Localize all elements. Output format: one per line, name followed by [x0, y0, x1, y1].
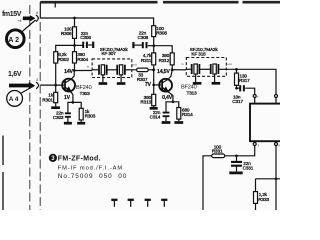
svg-text:KF 316: KF 316	[191, 51, 206, 56]
svg-text:R308: R308	[156, 31, 167, 36]
svg-text:C331: C331	[243, 166, 254, 171]
filter2 resonator 2	[200, 68, 210, 70]
wire bias row stage2	[154, 46, 173, 53]
connector pin T3	[145, 199, 151, 201]
ground C308 (inline bar)	[132, 42, 134, 48]
ground filter2 res2	[212, 82, 221, 85]
svg-text:R312: R312	[159, 58, 170, 63]
leader A4	[20, 86, 34, 94]
ground R303	[77, 122, 85, 125]
node R308 bottom	[152, 44, 155, 47]
filter1 resonator 2	[107, 69, 116, 71]
node base2 top	[152, 68, 155, 71]
node pin6 junction	[275, 177, 278, 180]
node base2	[152, 84, 155, 87]
svg-text:6: 6	[278, 143, 280, 147]
wire: supply riser and rail to R308	[40, 2, 153, 26]
capacitor C308	[135, 44, 143, 46]
svg-text:in: in	[181, 62, 184, 66]
svg-text:1V: 1V	[64, 95, 71, 101]
rail stub tick	[54, 2, 56, 8]
svg-text:A 4: A 4	[9, 96, 19, 103]
wire filter2 out to IC	[226, 69, 276, 94]
svg-text:R304: R304	[77, 57, 88, 62]
node R306 bottom	[73, 44, 76, 47]
badge A4	[7, 91, 23, 107]
resistor R314	[173, 102, 179, 121]
node emitter1	[72, 101, 75, 104]
connector pin T1	[111, 199, 117, 201]
svg-text:fm15V: fm15V	[2, 11, 22, 18]
node C317 left	[235, 87, 238, 90]
svg-text:BF240: BF240	[181, 84, 197, 90]
resistor R311	[152, 53, 156, 65]
arrow fm15V input	[23, 15, 36, 21]
leader A2	[21, 20, 35, 32]
resistor R301	[54, 92, 58, 102]
connector pin T2	[128, 199, 134, 201]
filter1 resonator 1	[92, 69, 98, 71]
resistor R306	[73, 27, 77, 39]
node emitter2	[172, 100, 175, 103]
ceramic filter KF316 dashed box	[186, 58, 226, 77]
svg-text:7: 7	[257, 95, 259, 99]
filter2 resonator 1	[186, 68, 191, 70]
resistor R308	[152, 26, 156, 37]
ground R314	[174, 121, 183, 124]
resistor R302	[54, 52, 58, 63]
node collector2	[171, 68, 174, 71]
capacitor C303	[68, 102, 73, 112]
ground C331	[229, 171, 242, 174]
svg-text:out: out	[132, 62, 136, 66]
svg-text:FM-IF mod./F.I.-AM: FM-IF mod./F.I.-AM	[58, 165, 123, 171]
pin top right	[275, 95, 278, 98]
ground filter2 res1	[193, 82, 202, 85]
node base1 junction	[54, 84, 57, 87]
svg-text:1,6V: 1,6V	[8, 71, 22, 78]
connector socket 1,6V	[36, 82, 38, 89]
svg-text:FM-ZF-Mod.: FM-ZF-Mod.	[58, 156, 101, 163]
svg-text:KF 307: KF 307	[102, 51, 117, 56]
transistor T303	[62, 79, 75, 92]
svg-text:out: out	[227, 62, 231, 66]
resistor R304	[73, 52, 77, 63]
IC box	[250, 104, 283, 142]
wire base row stage2	[154, 84, 161, 86]
node R317 top	[235, 68, 238, 71]
svg-text:3: 3	[257, 143, 259, 147]
wire collector row stage1	[74, 70, 92, 72]
resistor R313	[152, 94, 156, 105]
svg-text:R301: R301	[42, 97, 53, 102]
ground C306 (inline bar)	[92, 42, 94, 48]
svg-text:C314: C314	[150, 115, 161, 120]
svg-text:T313: T313	[187, 91, 198, 96]
svg-text:R306: R306	[61, 31, 72, 36]
svg-text:R317: R317	[239, 78, 250, 83]
pin 7	[253, 95, 256, 98]
svg-text:7V: 7V	[145, 82, 152, 88]
svg-text:C308: C308	[138, 35, 149, 40]
left sheet border	[2, 136, 4, 211]
resistor R312	[170, 53, 174, 65]
pin 3	[253, 143, 256, 146]
capacitor C314	[166, 102, 173, 112]
svg-text:No.75009 050 00: No.75009 050 00	[58, 173, 128, 180]
svg-text:+4: +4	[17, 19, 21, 23]
node rail junction	[73, 17, 76, 20]
top border rail	[40, 1, 280, 4]
svg-text:C303: C303	[53, 115, 64, 120]
ground filter1 res1	[99, 82, 108, 85]
svg-text:R302: R302	[58, 57, 69, 62]
ground C303	[64, 122, 72, 125]
node collector1	[73, 69, 76, 72]
wire base row stage1	[41, 84, 64, 86]
ground C314	[162, 121, 171, 124]
module boundary dashed line right	[39, 22, 41, 210]
svg-text:C317: C317	[232, 99, 243, 104]
svg-text:14,5V: 14,5V	[157, 69, 170, 75]
svg-text:A 2: A 2	[8, 37, 19, 44]
svg-text:in: in	[87, 65, 90, 69]
arrow 1,6V input	[9, 82, 35, 89]
svg-text:3: 3	[36, 78, 38, 82]
svg-text:R314: R314	[182, 112, 193, 117]
resistor R331	[203, 156, 237, 210]
svg-text:C306: C306	[80, 35, 91, 40]
wire R333 row	[256, 179, 281, 192]
connector pin T4	[161, 199, 167, 201]
svg-text:R333: R333	[258, 197, 269, 202]
module title dot 3	[49, 154, 57, 162]
resistor R317	[236, 69, 238, 88]
svg-text:R303: R303	[85, 114, 96, 119]
ground filter1 res2	[117, 82, 126, 85]
capacitor C306	[75, 44, 83, 46]
resistor R307	[132, 69, 154, 71]
pin 6	[275, 143, 278, 146]
svg-text:R331: R331	[212, 149, 223, 154]
badge A2	[7, 30, 25, 48]
ceramic filter KF307 dashed box	[92, 59, 132, 78]
svg-text:R311: R311	[141, 58, 152, 63]
svg-text:14V: 14V	[64, 69, 73, 75]
svg-text:0,4V: 0,4V	[162, 95, 173, 101]
wire collector row stage2	[172, 69, 186, 71]
resistor R303	[73, 102, 81, 122]
resistor R333	[254, 192, 258, 204]
svg-text:T303: T303	[80, 91, 91, 96]
svg-text:R313: R313	[140, 99, 151, 104]
capacitor C331	[236, 156, 238, 161]
transistor T313	[159, 79, 172, 92]
connector socket fm15V	[36, 15, 38, 22]
wire bias row stage1	[56, 45, 75, 51]
node pin3 junction	[235, 154, 238, 157]
module boundary dashed line left	[29, 5, 31, 210]
capacitor C317	[237, 87, 240, 89]
ground R313	[150, 107, 158, 110]
ground R301	[51, 106, 60, 109]
